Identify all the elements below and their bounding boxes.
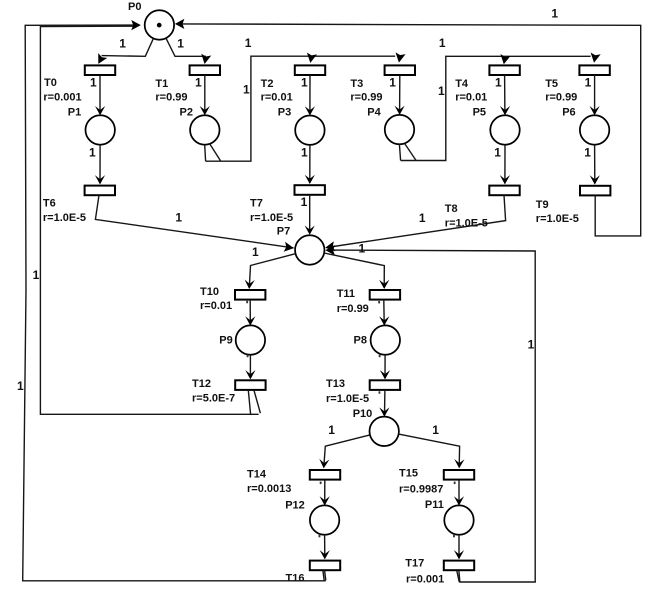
svg-text:1: 1 [119,36,126,50]
arc P4 to T4 and T5 [399,52,600,160]
place P6 [580,115,609,144]
arc T15 to P11 [454,480,464,506]
transition T0 [85,65,115,75]
transition T7 [295,185,325,195]
svg-text:r=1.0E-5: r=1.0E-5 [445,217,488,229]
svg-text:T10: T10 [200,286,219,298]
svg-text:r=0.01: r=0.01 [200,300,232,312]
svg-text:T15: T15 [399,467,418,479]
transition T17 [444,561,474,571]
arc T17 to P7 [325,245,535,582]
place P3 [295,116,324,145]
arc T0 to P1 [95,75,105,115]
svg-text:r=5.0E-7: r=5.0E-7 [192,392,235,404]
svg-text:1: 1 [584,146,591,160]
svg-text:T6: T6 [43,197,56,209]
transition T5 [579,65,609,75]
svg-text:r=0.99: r=0.99 [337,303,369,315]
arc P8 to T13 [380,355,390,380]
svg-text:r=0.001: r=0.001 [406,574,444,586]
arc P6 to T9 [590,145,600,185]
svg-text:1: 1 [301,146,308,160]
svg-text:P3: P3 [278,107,291,119]
transition T14 [310,470,340,480]
arc T9 to P0 [175,19,641,236]
arc T16 to P0 [23,20,326,581]
speck below T13 [379,391,381,394]
arc P10 to T15 [399,434,465,468]
speck below T14 [320,482,322,485]
svg-text:P5: P5 [473,107,486,119]
svg-text:T9: T9 [536,199,549,211]
svg-text:r=1.0E-5: r=1.0E-5 [326,393,369,405]
svg-text:1: 1 [328,423,335,437]
svg-text:T1: T1 [155,78,168,90]
svg-text:T0: T0 [44,77,57,89]
svg-text:r=1.0E-5: r=1.0E-5 [43,212,86,224]
place P5 [490,115,519,144]
arc T14 to P12 [320,480,330,506]
svg-text:T4: T4 [455,78,469,90]
arc T3 to P4 [395,75,405,115]
place P11 [444,505,473,534]
svg-text:1: 1 [195,75,202,89]
arc P1 to T6 [95,145,105,185]
speck below P8 [379,355,381,358]
arc P7 to T11 [324,253,389,289]
transition T4 [489,65,519,75]
transition T15 [444,470,474,480]
place P7 [295,235,324,264]
arc P2 to T2 and T3 [205,52,406,161]
place P10 [370,417,399,446]
speck below P12 [319,535,321,538]
svg-text:T11: T11 [337,288,355,300]
svg-text:P6: P6 [562,107,575,119]
svg-text:1: 1 [419,211,426,225]
speck below T15 [454,482,456,485]
svg-text:1: 1 [432,423,439,437]
svg-text:1: 1 [33,268,40,282]
svg-text:r=0.9987: r=0.9987 [399,484,443,496]
speck below T11 [378,301,380,304]
transition T2 [295,65,325,75]
svg-text:P9: P9 [219,335,232,347]
svg-text:r=0.99: r=0.99 [350,91,382,103]
svg-text:r=0.0013: r=0.0013 [247,483,291,495]
svg-text:P8: P8 [354,335,367,347]
arc P5 to T8 [500,145,510,185]
svg-text:T12: T12 [192,378,211,390]
svg-text:1: 1 [551,6,558,20]
svg-text:1: 1 [17,379,24,393]
svg-text:1: 1 [245,36,252,50]
svg-text:T2: T2 [261,78,274,90]
svg-text:T5: T5 [545,78,558,90]
transition T9 [580,186,610,196]
arc T8 to P7 [324,195,505,253]
svg-text:r=0.001: r=0.001 [43,92,81,104]
arc P3 to T7 [305,145,315,184]
svg-text:1: 1 [301,75,308,89]
transition T16 [310,561,340,571]
transition T11 [370,290,400,300]
svg-text:T16: T16 [286,573,305,585]
arc T11 to P8 [379,300,389,326]
svg-text:T3: T3 [350,78,363,90]
arc T10 to P9 [245,300,255,326]
svg-text:T17: T17 [405,558,424,570]
place P4 [385,115,414,144]
svg-text:1: 1 [494,146,501,160]
arc P0 to T1 [166,38,211,65]
svg-text:T13: T13 [326,378,345,390]
transition T8 [489,186,519,196]
arc T2 to P3 [305,75,315,116]
svg-text:r=0.01: r=0.01 [455,91,487,103]
arc T4 to P5 [500,75,510,115]
svg-text:P2: P2 [180,107,193,119]
speck below P11 [453,535,455,538]
place P2 [190,115,219,144]
svg-text:1: 1 [528,338,535,352]
place P9 [236,325,265,354]
speck below P9 [247,355,249,358]
arc T7 to P7 [305,195,315,235]
svg-text:r=1.0E-5: r=1.0E-5 [536,213,579,225]
arc T6 to P7 [95,195,294,253]
arc P9 to T12 [245,355,255,380]
svg-text:1: 1 [175,211,182,225]
arc T12 to P0 [40,26,260,414]
svg-text:r=1.0E-5: r=1.0E-5 [250,212,293,224]
place P12 [310,505,339,534]
arc P12 to T16 [320,535,330,560]
transition T12 [235,380,265,390]
svg-text:P4: P4 [367,107,381,119]
svg-text:P0: P0 [128,1,141,13]
svg-text:P10: P10 [353,408,373,420]
svg-text:1: 1 [252,245,259,259]
svg-text:1: 1 [438,84,445,98]
transition T10 [235,290,265,300]
svg-text:T14: T14 [247,468,267,480]
transition T6 [85,186,115,196]
arc T1 to P2 [200,75,210,115]
place P1 [86,115,115,144]
svg-text:1: 1 [89,145,96,159]
arc T13 to P10 [379,390,389,417]
svg-text:1: 1 [585,76,592,90]
svg-text:P7: P7 [277,225,290,237]
arc P11 to T17 [454,535,464,560]
transition T3 [385,65,415,75]
speck below T10 [246,301,248,304]
svg-text:T8: T8 [445,203,458,215]
transition T1 [190,65,220,75]
arc P7 to T10 [244,254,295,290]
place P8 [371,325,400,354]
svg-text:r=0.99: r=0.99 [155,91,187,103]
svg-text:1: 1 [439,36,446,50]
svg-text:P12: P12 [285,499,305,511]
arc P10 to T14 [319,435,370,469]
arc T5 to P6 [590,75,600,115]
svg-text:1: 1 [389,75,396,89]
svg-text:P1: P1 [68,107,81,119]
arc P0 to T0 [94,38,154,66]
svg-text:1: 1 [243,83,250,97]
svg-text:P11: P11 [425,499,444,511]
svg-text:r=0.01: r=0.01 [261,91,293,103]
svg-text:1: 1 [359,241,366,255]
svg-text:1: 1 [90,75,97,89]
svg-text:T7: T7 [250,197,263,209]
svg-text:r=0.99: r=0.99 [545,91,577,103]
transition T13 [370,380,400,390]
svg-text:1: 1 [495,75,502,89]
place P0 [145,10,174,39]
svg-text:1: 1 [301,195,308,209]
svg-text:1: 1 [177,36,184,50]
